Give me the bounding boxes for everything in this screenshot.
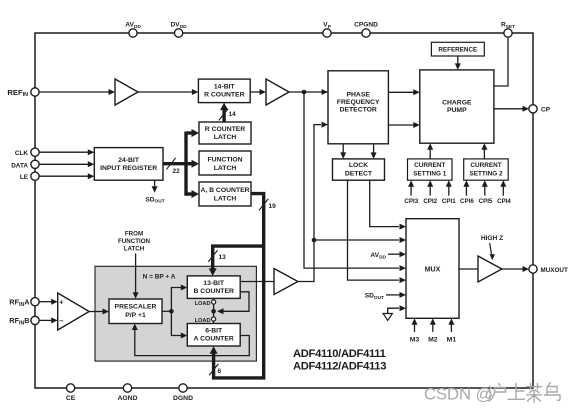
svg-text:LE: LE — [20, 174, 29, 181]
wire function latch to prescaler — [133, 254, 139, 299]
label M2 — [428, 336, 438, 343]
svg-text:13: 13 — [219, 254, 227, 261]
svg-text:SETTING 1: SETTING 1 — [413, 170, 446, 177]
label ADF4112/ADF4113 — [293, 361, 386, 373]
pin DATA (left) — [11, 160, 39, 169]
svg-text:R COUNTER: R COUNTER — [205, 126, 245, 133]
wire M3 input — [412, 318, 418, 332]
wire junction to A counter — [171, 311, 187, 338]
block charge pump — [420, 70, 494, 143]
wire HIGH Z arrow — [490, 243, 495, 260]
svg-text:PRESCALER: PRESCALER — [115, 303, 157, 310]
svg-text:RFINB: RFINB — [9, 316, 29, 326]
svg-text:CLK: CLK — [15, 150, 29, 157]
label CPI6 — [460, 198, 474, 205]
bus register to latches — [163, 132, 186, 196]
bus slash 14 — [219, 109, 236, 120]
block R counter latch — [199, 122, 251, 144]
svg-text:CSDN @: CSDN @ — [424, 385, 492, 404]
block current setting 1 — [408, 159, 453, 180]
label LOAD upper — [195, 301, 211, 307]
svg-text:–: – — [59, 316, 63, 325]
bus slash 6 — [209, 364, 221, 375]
svg-text:AVDD: AVDD — [370, 252, 386, 260]
svg-text:DETECT: DETECT — [345, 170, 373, 177]
label CPI4 — [497, 198, 511, 205]
load circle lower — [212, 317, 216, 324]
pin CLK (left) — [15, 148, 39, 157]
wire SDOUT to MUX — [386, 292, 406, 298]
wire CPI3 input — [408, 180, 414, 195]
svg-text:AVDD: AVDD — [125, 22, 141, 30]
svg-text:DATA: DATA — [11, 162, 28, 169]
pin REFIN (left) — [7, 88, 39, 98]
block 13-bit B counter — [187, 276, 240, 299]
svg-text:MUX: MUX — [425, 267, 441, 274]
node load junction — [211, 309, 216, 314]
svg-text:DVDD: DVDD — [171, 22, 188, 30]
svg-text:FUNCTION: FUNCTION — [118, 238, 150, 245]
node R-divided junction — [302, 90, 307, 95]
block 6-bit A counter — [187, 324, 240, 347]
svg-text:P/P +1: P/P +1 — [125, 312, 146, 319]
label FROM FUNCTION LATCH — [118, 231, 150, 253]
wire current setting 2 to charge pump — [481, 143, 487, 159]
ground symbol — [383, 314, 392, 321]
wire M2 input — [430, 318, 436, 332]
label HIGH Z — [481, 235, 503, 242]
wire junction down to MUX — [304, 92, 406, 271]
wire ground to MUX — [388, 305, 406, 313]
svg-text:A, B COUNTER: A, B COUNTER — [200, 187, 249, 194]
wire DATA to register — [39, 161, 94, 167]
block A,B counter latch — [199, 182, 251, 206]
pin CPGND (top) — [354, 22, 378, 38]
svg-text:19: 19 — [269, 203, 277, 210]
svg-text:N = BP + A: N = BP + A — [143, 273, 176, 280]
pin AGND (bottom) — [117, 384, 137, 402]
svg-text:LATCH: LATCH — [124, 246, 145, 253]
svg-text:CPI2: CPI2 — [423, 198, 437, 205]
svg-text:+: + — [59, 298, 64, 307]
block 14-bit R counter — [198, 79, 250, 103]
wire lock detect to MUX input 5 — [348, 180, 407, 283]
svg-text:CP: CP — [541, 106, 551, 113]
svg-text:CURRENT: CURRENT — [470, 162, 501, 169]
svg-text:LATCH: LATCH — [214, 165, 237, 172]
svg-text:DETECTOR: DETECTOR — [340, 107, 377, 114]
block function latch — [199, 151, 251, 175]
svg-text:PHASE: PHASE — [346, 91, 370, 98]
svg-text:ADF4112/ADF4113: ADF4112/ADF4113 — [293, 361, 386, 373]
wire A counter to prescaler feedback — [132, 324, 250, 356]
label M1 — [447, 336, 457, 343]
bus arrow to A,B counter latch — [186, 190, 199, 198]
svg-text:SDOUT: SDOUT — [365, 293, 384, 301]
wire R counter to buffer A2 — [250, 89, 266, 95]
svg-text:RFINA: RFINA — [9, 297, 30, 307]
svg-text:FUNCTION: FUNCTION — [207, 157, 242, 164]
wire MUX to output buffer — [459, 268, 478, 270]
buffer A1 (reference input) — [115, 79, 138, 105]
svg-text:MUXOUT: MUXOUT — [541, 267, 568, 274]
svg-text:CPI5: CPI5 — [479, 198, 493, 205]
wire N junction to MUX — [314, 237, 406, 243]
wire lock detect to MUX input 1 — [370, 180, 406, 229]
wire AVDD to MUX — [388, 251, 406, 257]
watermark CSDN — [424, 383, 560, 404]
svg-text:A COUNTER: A COUNTER — [194, 336, 234, 343]
node N-divided junction — [312, 238, 317, 243]
label SDOUT mux input — [365, 293, 384, 301]
pin VP (top) — [323, 22, 332, 38]
buffer A2 (R counter output) — [266, 79, 289, 105]
pin RFINB (left) — [9, 316, 39, 326]
label CPI1 — [442, 198, 456, 205]
load circle upper — [212, 298, 216, 304]
N divider block (gray) — [95, 266, 256, 361]
bus slash 19 — [259, 199, 276, 210]
svg-text:CURRENT: CURRENT — [414, 162, 445, 169]
label M3 — [410, 336, 420, 343]
label ADF4110/ADF4111 — [293, 348, 386, 360]
pin MUXOUT (right) — [529, 265, 568, 274]
rf buffer A3 (differential) — [58, 293, 89, 330]
label SDOUT — [145, 196, 164, 204]
wire CPI5 input — [482, 180, 488, 195]
wire CPI6 input — [463, 180, 469, 195]
wire CPI4 input — [500, 180, 506, 195]
bus slash 13 — [208, 250, 226, 261]
svg-text:CHARGE: CHARGE — [442, 99, 472, 106]
wire between load circles — [213, 304, 215, 317]
svg-text:ADF4110/ADF4111: ADF4110/ADF4111 — [293, 348, 386, 360]
wire PFD down output to charge pump — [388, 122, 419, 128]
chip boundary frame — [35, 33, 533, 388]
wire PFD up output to charge pump — [388, 89, 419, 95]
svg-text:SETTING 2: SETTING 2 — [469, 170, 502, 177]
svg-text:M3: M3 — [410, 336, 420, 343]
wire A2 to PFD with junction — [289, 89, 328, 95]
buffer A5 (muxout) — [478, 256, 502, 282]
pin RSET (top) — [501, 22, 515, 38]
wire load feedback from B counter — [217, 292, 249, 315]
pin LE (left) — [20, 172, 39, 181]
svg-text:PUMP: PUMP — [447, 107, 467, 114]
svg-text:24-BIT: 24-BIT — [118, 157, 140, 164]
svg-text:CPI1: CPI1 — [442, 198, 456, 205]
block reference bias — [431, 42, 484, 56]
pin AVDD (top) — [125, 22, 141, 38]
wire buffer to R counter — [138, 89, 198, 95]
label CPI5 — [479, 198, 493, 205]
bus R latch to R counter — [220, 103, 228, 122]
wire charge pump to CP pin — [494, 106, 529, 112]
label LOAD lower — [195, 318, 211, 324]
svg-text:CPI4: CPI4 — [497, 198, 511, 205]
svg-text:CPGND: CPGND — [354, 22, 378, 29]
wire CPI2 input — [427, 180, 433, 195]
wire RSET to charge pump — [494, 37, 508, 86]
wire A4 to PFD — [298, 122, 328, 282]
bus A,B latch to counters — [210, 194, 264, 378]
svg-text:13-BIT: 13-BIT — [203, 280, 225, 287]
svg-text:B COUNTER: B COUNTER — [193, 288, 233, 295]
block 24-bit input register — [94, 148, 163, 181]
wire prescaler output — [162, 310, 171, 312]
wire buffer to MUXOUT pin — [502, 266, 529, 272]
wire CPI1 input — [446, 180, 452, 195]
svg-text:LOCK: LOCK — [349, 162, 368, 169]
svg-text:M1: M1 — [447, 336, 457, 343]
svg-text:6: 6 — [218, 368, 222, 375]
wire CLK to register — [39, 149, 94, 155]
label AVDD mux input — [370, 252, 386, 260]
bus arrow to function latch — [186, 160, 199, 168]
wire buffer to prescaler — [89, 309, 109, 315]
svg-text:R COUNTER: R COUNTER — [204, 91, 244, 98]
block lock detect — [333, 159, 385, 180]
pin DVDD (top) — [171, 22, 188, 38]
svg-text:CE: CE — [66, 395, 76, 402]
svg-text:LATCH: LATCH — [214, 195, 237, 202]
bus slash 22 — [166, 158, 180, 175]
wire junction to B counter — [171, 285, 187, 312]
wire current setting 1 to charge pump — [427, 143, 433, 159]
svg-text:14-BIT: 14-BIT — [214, 84, 236, 91]
buffer A4 (N divider output) — [274, 269, 298, 295]
svg-text:RSET: RSET — [501, 22, 515, 30]
bus branch to B counter — [209, 246, 264, 276]
wire REFIN to buffer — [39, 89, 115, 95]
pin CE (bottom) — [66, 384, 76, 402]
wire B counter to buffer A4 — [240, 281, 274, 283]
svg-text:M2: M2 — [428, 336, 438, 343]
wire RFINA to buffer — [39, 299, 58, 305]
svg-text:22: 22 — [173, 168, 181, 175]
svg-text:FREQUENCY: FREQUENCY — [337, 99, 380, 106]
svg-text:SDOUT: SDOUT — [145, 196, 164, 204]
label CPI2 — [423, 198, 437, 205]
svg-text:14: 14 — [229, 111, 237, 118]
svg-text:DGND: DGND — [173, 395, 193, 402]
wire SDOUT from register — [152, 180, 158, 193]
svg-text:LOAD: LOAD — [195, 301, 211, 307]
pin DGND (bottom) — [173, 384, 193, 402]
svg-text:INPUT REGISTER: INPUT REGISTER — [100, 165, 157, 172]
pin RFINA (left) — [9, 297, 39, 307]
svg-text:REFERENCE: REFERENCE — [438, 46, 477, 53]
svg-text:HIGH Z: HIGH Z — [481, 235, 503, 242]
wire LE to register — [39, 173, 94, 179]
block MUX — [406, 219, 459, 319]
svg-text:REFIN: REFIN — [7, 88, 28, 98]
pin CP (right) — [529, 105, 551, 114]
label N = BP + A — [143, 273, 176, 280]
wire M1 input — [448, 318, 454, 332]
svg-text:LOAD: LOAD — [195, 318, 211, 324]
bus arrow to R counter latch — [186, 129, 199, 137]
wire PFD to lock detect right — [371, 144, 377, 159]
svg-text:VP: VP — [323, 22, 331, 30]
wire PFD to lock detect left — [340, 144, 346, 159]
svg-text:CPI6: CPI6 — [460, 198, 474, 205]
label CPI3 — [404, 198, 418, 205]
svg-text:FROM: FROM — [125, 231, 143, 238]
svg-text:AGND: AGND — [117, 395, 137, 402]
node prescaler output junction — [169, 309, 174, 314]
svg-text:6-BIT: 6-BIT — [205, 327, 223, 334]
wire RFINB to buffer — [39, 317, 58, 323]
svg-text:LATCH: LATCH — [214, 134, 237, 141]
block prescaler P/P+1 — [109, 299, 162, 324]
wire reference to charge pump — [455, 56, 461, 70]
block current setting 2 — [464, 159, 509, 180]
svg-text:CPI3: CPI3 — [404, 198, 418, 205]
block phase frequency detector — [328, 71, 388, 144]
